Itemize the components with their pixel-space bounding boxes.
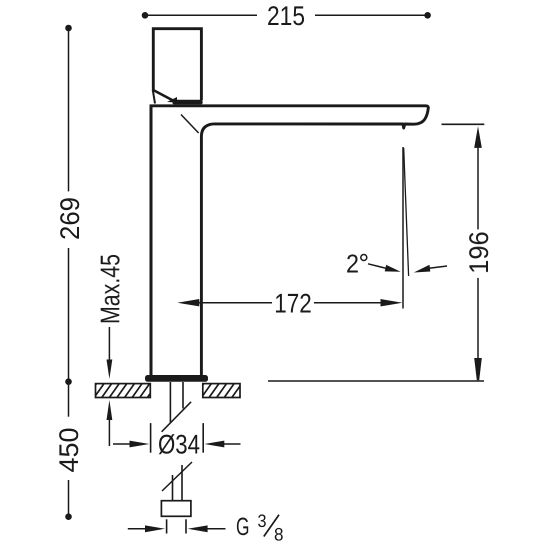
- dimension 269 end dots: [65, 25, 72, 32]
- dimension G3/8 right extension tick: [185, 519, 187, 533]
- dimension G3/8 left arrow: [128, 525, 165, 532]
- handle lever tip wedge: [167, 97, 177, 103]
- angle 2 deg right arrow: [414, 265, 447, 273]
- svg-text:2: 2: [346, 249, 359, 279]
- spout top edge with right tip: [150, 106, 429, 128]
- svg-text:172: 172: [274, 288, 312, 318]
- dimension Max.45 lower line with up arrow: [107, 400, 113, 446]
- countertop surface extension line: [268, 380, 484, 382]
- dimension 196 top extension line: [442, 123, 485, 125]
- supply pipe lower right line: [181, 465, 183, 501]
- svg-text:269: 269: [55, 197, 85, 240]
- dimension O34 left arrow: [113, 441, 149, 448]
- dimension 172 left arrow: [177, 299, 272, 306]
- dimension 172 right arrow: [314, 299, 402, 306]
- svg-text:215: 215: [267, 1, 305, 31]
- handle lever front edge: [153, 90, 155, 104]
- dimension 196 line lower with down arrow: [474, 278, 482, 380]
- dimension O34 left extension tick: [150, 423, 152, 453]
- supply pipe upper right line: [182, 382, 184, 409]
- svg-text:Ø34: Ø34: [158, 429, 200, 459]
- dimension O34 right extension tick: [202, 423, 204, 453]
- dimension 215 line: [145, 14, 428, 16]
- svg-text:450: 450: [54, 428, 84, 473]
- svg-text:196: 196: [464, 231, 494, 273]
- handle lever diagonal edge: [152, 90, 174, 102]
- countertop right hatched section: [193, 382, 251, 399]
- handle base bar: [173, 100, 203, 105]
- spout underside corner into body right edge: [201, 124, 213, 376]
- G3/8 connector nut: [161, 501, 191, 517]
- countertop left hatched section: [86, 382, 159, 399]
- angle 2 deg label: [346, 249, 367, 279]
- dimension O34 right arrow: [204, 441, 240, 448]
- pipe break leader upper: [162, 402, 192, 432]
- dimension 450 bottom dot: [65, 513, 72, 520]
- dimension 196 line upper with up arrow: [474, 126, 482, 229]
- dimension G3/8 left extension tick: [166, 519, 168, 533]
- dimension 269 line: [68, 28, 70, 382]
- supply pipe lower left line: [172, 475, 174, 501]
- dimension 450 line: [68, 382, 70, 517]
- base flange: [145, 375, 208, 382]
- dimension 215 end dots: [142, 12, 149, 19]
- supply pipe upper left line: [169, 382, 171, 423]
- water stream right line: [404, 148, 409, 276]
- water stream left line: [402, 147, 404, 309]
- svg-text:Max.45: Max.45: [95, 254, 125, 324]
- svg-text:8: 8: [274, 525, 284, 545]
- svg-text:3: 3: [258, 511, 267, 531]
- handle body: [153, 29, 201, 100]
- faucet body left edge: [150, 105, 153, 376]
- dimension Max.45 upper line with down arrow: [107, 327, 113, 379]
- svg-text:G: G: [236, 513, 250, 541]
- label G 3/8: [236, 511, 284, 545]
- pipe break leader lower: [162, 462, 192, 491]
- angle 2 deg left arrow: [368, 264, 401, 272]
- dimension G3/8 right arrow: [188, 525, 226, 532]
- spout-body crease line: [181, 115, 199, 134]
